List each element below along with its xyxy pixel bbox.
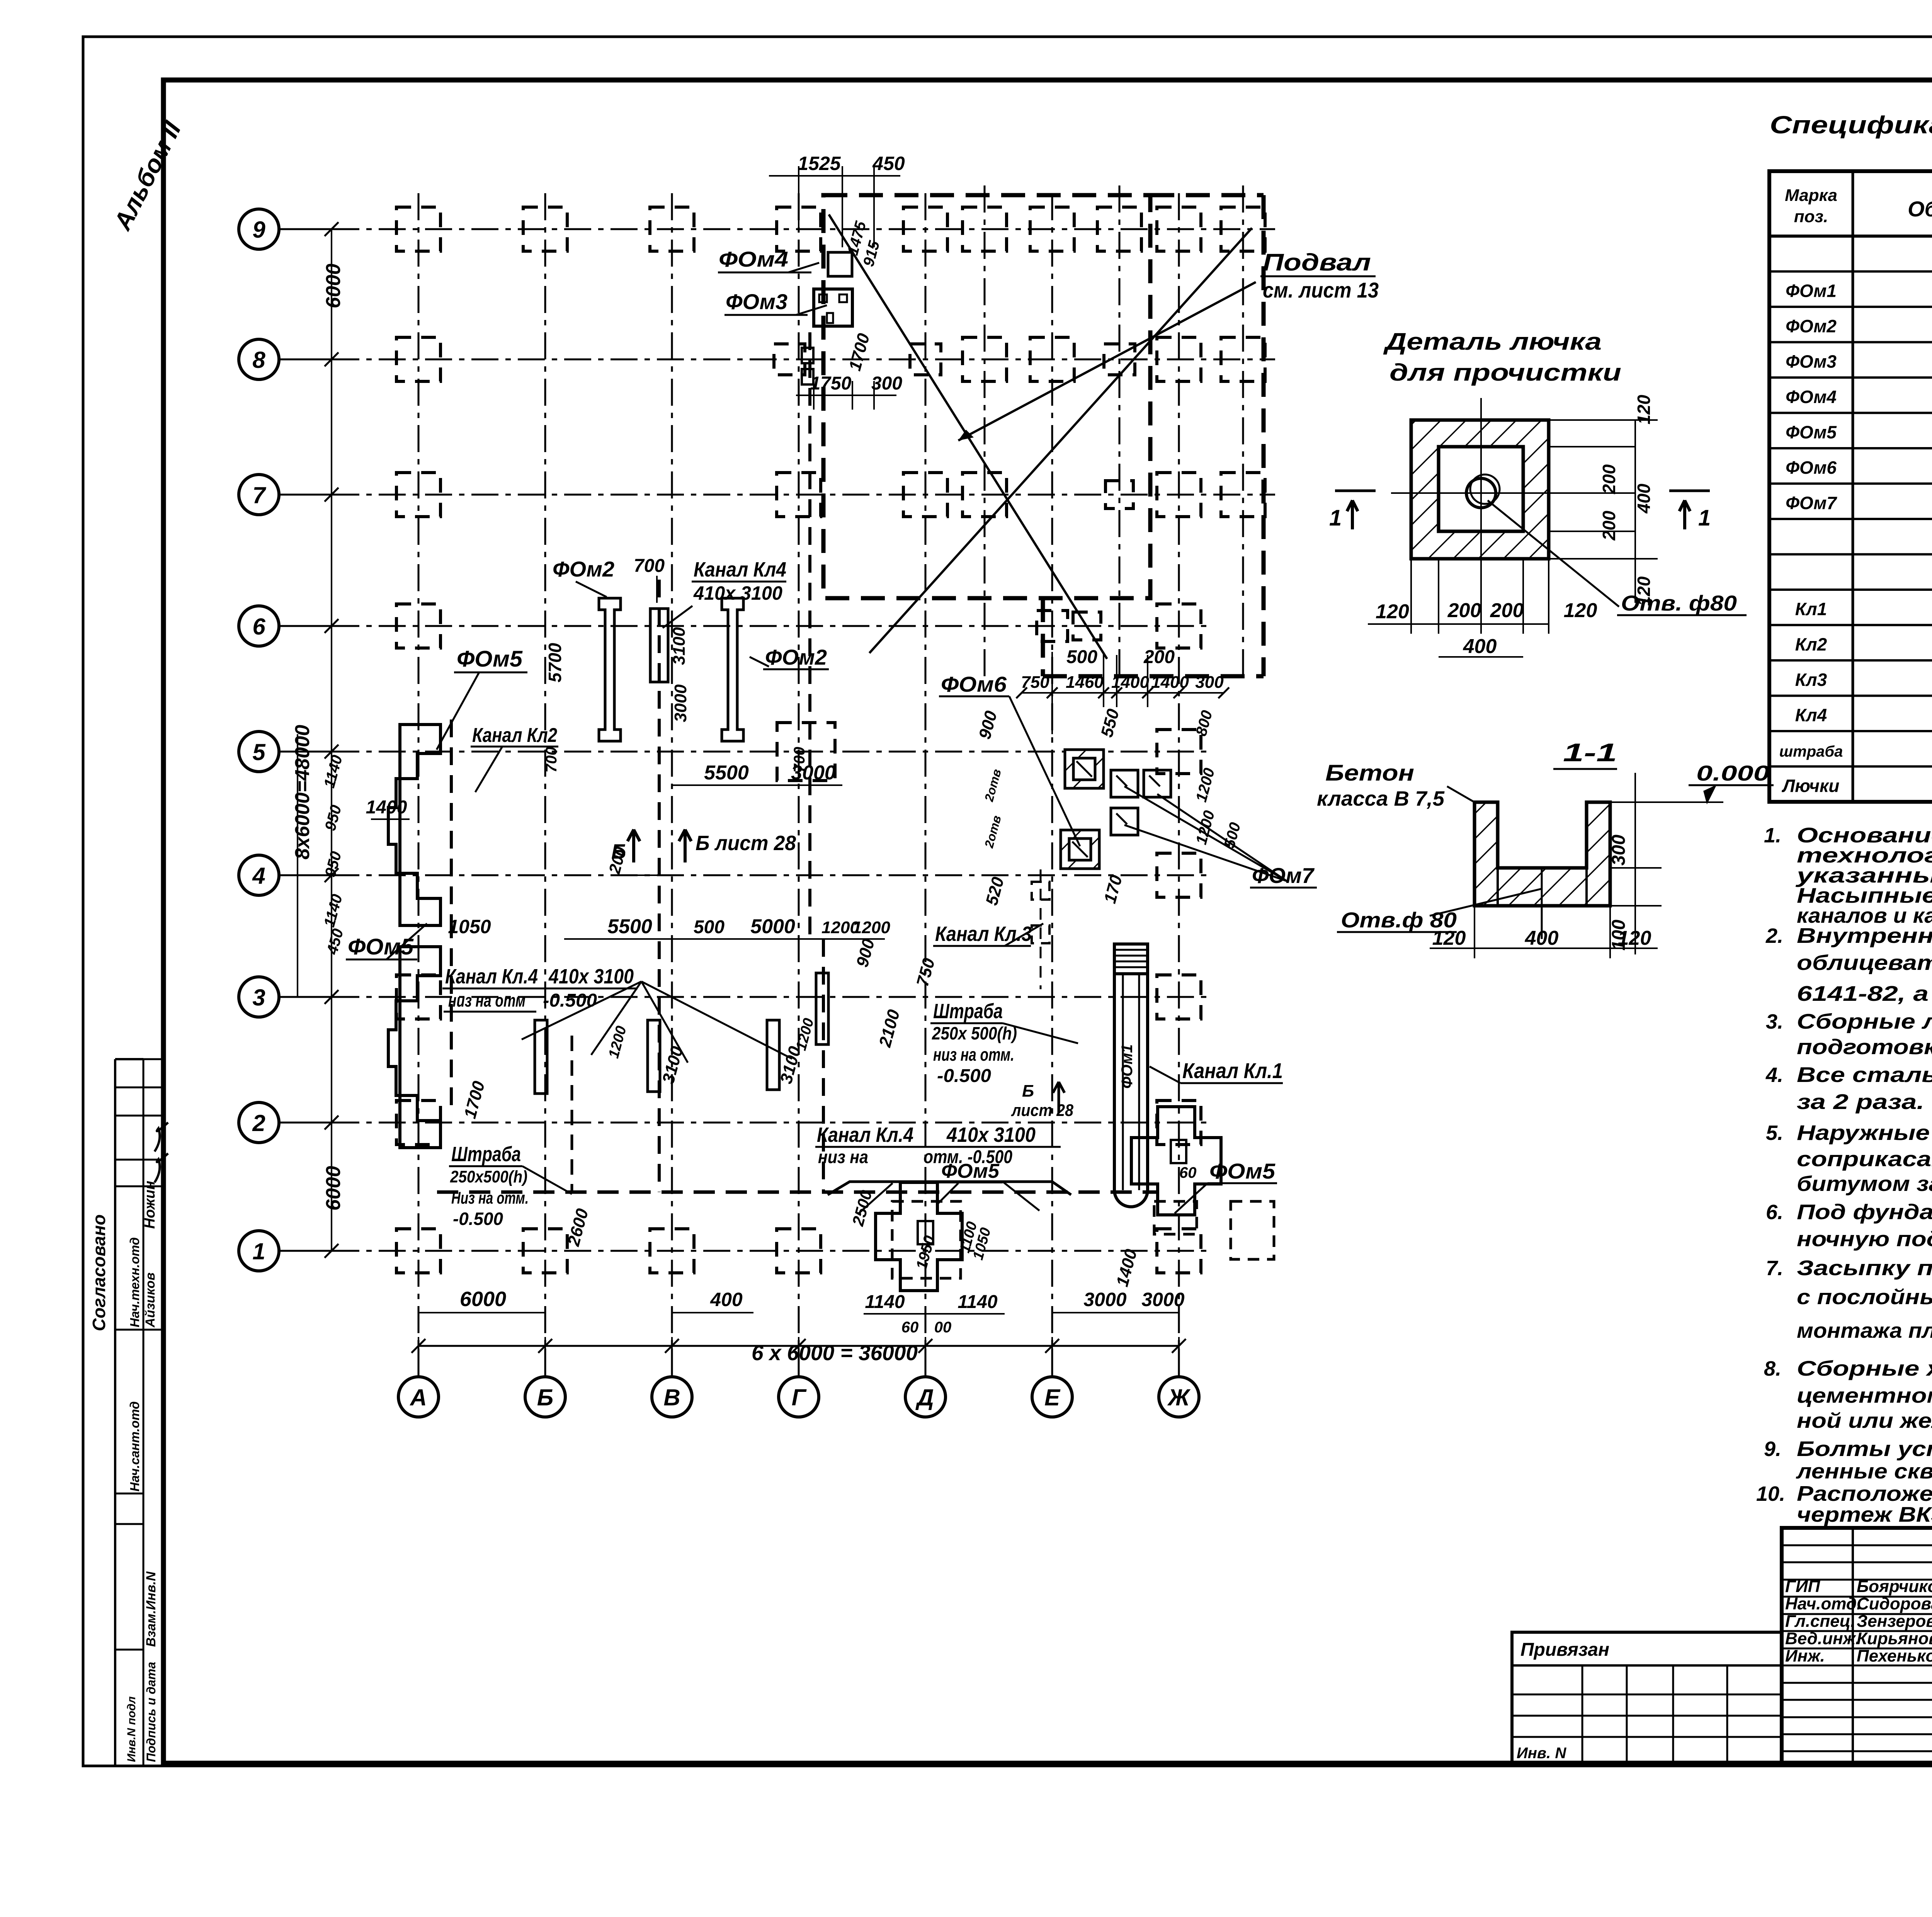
svg-text:ФОм5: ФОм5 <box>1786 422 1837 442</box>
svg-text:Штраба: Штраба <box>933 1000 1003 1023</box>
svg-text:ФОм7: ФОм7 <box>1786 493 1837 513</box>
svg-text:Кирьянова: Кирьянова <box>1857 1629 1932 1648</box>
svg-text:6000: 6000 <box>322 1166 345 1211</box>
svg-text:3000: 3000 <box>1083 1289 1126 1310</box>
svg-text:класса В 7,5: класса В 7,5 <box>1317 787 1445 810</box>
svg-text:А: А <box>409 1385 427 1410</box>
svg-text:450: 450 <box>872 153 905 174</box>
svg-text:Канал Кл4: Канал Кл4 <box>694 558 786 581</box>
svg-text:700: 700 <box>543 747 560 773</box>
svg-text:200: 200 <box>1490 599 1524 622</box>
svg-text:Подпись и дата: Подпись и дата <box>144 1662 158 1762</box>
svg-text:6000: 6000 <box>322 264 345 308</box>
svg-text:300: 300 <box>871 373 902 394</box>
svg-text:5700: 5700 <box>545 643 565 682</box>
svg-text:1: 1 <box>1698 505 1711 531</box>
svg-text:ФОм6: ФОм6 <box>1786 458 1837 478</box>
svg-text:120: 120 <box>1432 927 1466 949</box>
svg-text:1460: 1460 <box>1066 673 1104 692</box>
svg-text:подготовку h=100мм: подготовку h=100мм <box>1797 1035 1932 1059</box>
svg-text:200: 200 <box>1599 464 1619 494</box>
svg-text:см. лист 13: см. лист 13 <box>1263 278 1379 302</box>
svg-text:с послойным уплотнением до γ=: с послойным уплотнением до γ= 1,6 тс/м³ … <box>1797 1285 1932 1309</box>
svg-text:лист 28: лист 28 <box>1011 1101 1073 1120</box>
svg-text:Болты устанавливать на эпоксид: Болты устанавливать на эпоксидном клее в… <box>1797 1437 1932 1461</box>
svg-text:500: 500 <box>1066 647 1097 667</box>
svg-text:60: 60 <box>1179 1164 1197 1181</box>
svg-text:8: 8 <box>252 347 265 373</box>
svg-text:400: 400 <box>1463 635 1497 658</box>
svg-text:0.000: 0.000 <box>1696 761 1770 785</box>
svg-text:Все стальные элементы окрасить: Все стальные элементы окрасить масляной … <box>1797 1063 1932 1087</box>
svg-text:Сборные железобетонные плиты у: Сборные железобетонные плиты укладывать … <box>1797 1356 1932 1380</box>
svg-text:низ на: низ на <box>818 1147 868 1167</box>
svg-text:Боярчиков: Боярчиков <box>1857 1577 1932 1596</box>
svg-text:2.: 2. <box>1765 924 1783 947</box>
svg-text:Пехенько: Пехенько <box>1857 1647 1932 1665</box>
svg-text:Расположение лючков для прочис: Расположение лючков для прочистки на пла… <box>1797 1482 1932 1505</box>
svg-text:6141-82, а полы по ГОСТ 6787-8: 6141-82, а полы по ГОСТ 6787-80* <box>1797 981 1932 1005</box>
svg-text:Штраба: Штраба <box>451 1143 521 1166</box>
svg-text:ФОм2: ФОм2 <box>553 557 614 581</box>
svg-text:700: 700 <box>791 747 808 773</box>
svg-text:1: 1 <box>252 1238 265 1264</box>
svg-text:В: В <box>663 1385 680 1410</box>
svg-text:5000: 5000 <box>750 915 795 938</box>
svg-text:монтажа плит перекрытия.: монтажа плит перекрытия. <box>1797 1318 1932 1342</box>
svg-text:60: 60 <box>901 1319 919 1336</box>
svg-text:ФОм2: ФОм2 <box>765 645 827 669</box>
svg-text:ФОм5: ФОм5 <box>457 646 523 672</box>
svg-text:9: 9 <box>252 217 265 243</box>
svg-text:120: 120 <box>1634 576 1654 606</box>
svg-text:300: 300 <box>1195 673 1224 692</box>
svg-text:ФОм5: ФОм5 <box>941 1160 1000 1182</box>
svg-text:5500: 5500 <box>607 915 652 938</box>
svg-text:Канал Кл2: Канал Кл2 <box>472 724 557 747</box>
svg-text:Инв.N подл: Инв.N подл <box>125 1696 138 1762</box>
svg-text:3.: 3. <box>1766 1010 1783 1033</box>
svg-text:Под фундаменты оборудования вы: Под фундаменты оборудования выполнять ще… <box>1797 1200 1932 1224</box>
svg-text:410х 3100: 410х 3100 <box>693 582 782 604</box>
svg-text:5500: 5500 <box>704 762 749 784</box>
svg-text:Айзиков: Айзиков <box>143 1272 158 1328</box>
svg-text:200: 200 <box>1447 599 1481 622</box>
svg-text:6.: 6. <box>1766 1201 1783 1224</box>
svg-text:Сидорова: Сидорова <box>1857 1594 1932 1613</box>
svg-text:Канал Кл.4: Канал Кл.4 <box>445 965 538 988</box>
svg-text:Вед.инж.: Вед.инж. <box>1785 1629 1860 1648</box>
svg-text:Нач.отд.: Нач.отд. <box>1785 1594 1861 1613</box>
svg-text:4.: 4. <box>1765 1063 1783 1087</box>
svg-text:Д: Д <box>915 1385 934 1410</box>
svg-text:ФОм5: ФОм5 <box>348 934 414 959</box>
svg-text:-0.500: -0.500 <box>937 1066 991 1086</box>
svg-text:1.: 1. <box>1764 824 1781 847</box>
svg-text:5: 5 <box>252 739 266 765</box>
svg-text:1140: 1140 <box>865 1292 905 1312</box>
svg-text:Б: Б <box>537 1385 553 1410</box>
svg-text:низ на отм.: низ на отм. <box>933 1044 1014 1065</box>
svg-text:ФОм4: ФОм4 <box>1786 387 1837 407</box>
svg-text:ФОм4: ФОм4 <box>719 247 788 271</box>
svg-text:3100: 3100 <box>670 627 689 665</box>
svg-text:Обозначение: Обозначение <box>1908 197 1932 221</box>
svg-text:Зензеров: Зензеров <box>1857 1612 1932 1631</box>
svg-text:Марка: Марка <box>1785 186 1837 205</box>
svg-text:120: 120 <box>1564 599 1597 622</box>
svg-text:200: 200 <box>1599 510 1619 541</box>
svg-text:Согласовано: Согласовано <box>89 1214 109 1331</box>
svg-text:1750: 1750 <box>810 373 852 394</box>
svg-text:300: 300 <box>1609 835 1629 866</box>
svg-text:Б лист 28: Б лист 28 <box>696 832 796 855</box>
svg-text:ФОм5: ФОм5 <box>1209 1159 1276 1183</box>
svg-text:Канал Кл.4: Канал Кл.4 <box>817 1123 913 1146</box>
svg-text:ФОм2: ФОм2 <box>1786 316 1837 336</box>
svg-text:6: 6 <box>252 614 265 640</box>
svg-text:ФОм3: ФОм3 <box>726 289 787 314</box>
svg-text:Инв. N: Инв. N <box>1517 1745 1566 1762</box>
svg-text:Кл1: Кл1 <box>1795 599 1827 619</box>
svg-text:цементном растворе марки 100 п: цементном растворе марки 100 по выравнен… <box>1797 1383 1932 1407</box>
svg-text:ФОм3: ФОм3 <box>1786 352 1837 372</box>
svg-text:3000: 3000 <box>1141 1289 1184 1310</box>
svg-text:1-1: 1-1 <box>1563 738 1617 767</box>
svg-text:9.: 9. <box>1764 1437 1781 1461</box>
svg-text:6000: 6000 <box>460 1288 506 1311</box>
svg-text:ФОм1: ФОм1 <box>1119 1044 1136 1089</box>
svg-text:соприкасающиеся с землей, обма: соприкасающиеся с землей, обмазать горяч… <box>1797 1147 1932 1171</box>
svg-text:чертеж ВК3.: чертеж ВК3. <box>1797 1502 1932 1526</box>
svg-text:7: 7 <box>252 482 266 508</box>
svg-text:Наружные поверхности фундамент: Наружные поверхности фундамента ФОм1, ка… <box>1797 1121 1932 1145</box>
svg-text:ФОм6: ФОм6 <box>941 672 1007 696</box>
svg-text:Гл.спец.: Гл.спец. <box>1785 1612 1855 1631</box>
svg-text:1200: 1200 <box>852 918 890 937</box>
svg-text:Нач.сант.отд: Нач.сант.отд <box>128 1401 142 1492</box>
svg-text:Внутренние поверхности стен, н: Внутренние поверхности стен, ниши ФОм1 <box>1797 924 1932 947</box>
svg-text:1525: 1525 <box>798 153 841 174</box>
svg-text:10.: 10. <box>1756 1482 1785 1505</box>
svg-text:Сборные лотки каналов укладыва: Сборные лотки каналов укладывать на песч… <box>1797 1009 1932 1033</box>
svg-text:00: 00 <box>934 1319 952 1336</box>
svg-text:750: 750 <box>1021 673 1049 692</box>
svg-text:400: 400 <box>1634 483 1654 514</box>
svg-text:Е: Е <box>1044 1385 1061 1410</box>
svg-text:250х500(h): 250х500(h) <box>450 1167 527 1186</box>
svg-text:Кл2: Кл2 <box>1795 634 1827 655</box>
svg-text:Ножин: Ножин <box>142 1181 158 1229</box>
svg-text:Ж: Ж <box>1167 1385 1191 1410</box>
svg-text:1400: 1400 <box>1111 673 1149 692</box>
svg-text:500: 500 <box>694 917 724 937</box>
svg-text:400: 400 <box>1525 927 1559 949</box>
svg-text:120: 120 <box>1618 927 1651 949</box>
svg-text:-0.500: -0.500 <box>453 1209 503 1229</box>
svg-text:1: 1 <box>1329 505 1342 531</box>
svg-text:410х 3100: 410х 3100 <box>946 1123 1036 1146</box>
svg-text:120: 120 <box>1634 395 1654 424</box>
svg-text:Г: Г <box>792 1385 807 1410</box>
svg-text:Привязан: Привязан <box>1520 1640 1609 1660</box>
svg-text:2: 2 <box>252 1110 265 1136</box>
svg-text:250х 500(h): 250х 500(h) <box>932 1023 1017 1043</box>
svg-text:ной или железобетонной поверхн: ной или железобетонной поверхности. <box>1797 1408 1932 1432</box>
svg-text:3: 3 <box>252 985 265 1010</box>
svg-text:1400: 1400 <box>1151 673 1189 692</box>
svg-text:за 2 раза.: за 2 раза. <box>1797 1090 1924 1114</box>
svg-text:Бетон: Бетон <box>1325 760 1414 786</box>
svg-text:Засыпку пазух фундаментов грун: Засыпку пазух фундаментов грунтом произв… <box>1797 1256 1932 1280</box>
svg-text:для прочистки: для прочистки <box>1389 359 1621 386</box>
svg-text:низ на отм: низ на отм <box>448 990 526 1010</box>
svg-text:битумом за 2 раза.: битумом за 2 раза. <box>1797 1172 1932 1196</box>
svg-text:4: 4 <box>252 863 265 889</box>
svg-text:Кл3: Кл3 <box>1795 670 1827 690</box>
svg-text:8х6000=48000: 8х6000=48000 <box>291 725 314 860</box>
svg-text:Инж.: Инж. <box>1785 1647 1825 1665</box>
svg-text:штраба: штраба <box>1779 743 1843 760</box>
svg-text:7.: 7. <box>1766 1257 1783 1280</box>
svg-text:ФОм1: ФОм1 <box>1786 281 1837 301</box>
svg-text:3000: 3000 <box>671 684 690 722</box>
svg-text:6 х 6000 = 36000: 6 х 6000 = 36000 <box>752 1340 918 1365</box>
svg-text:облицевать белой керамической: облицевать белой керамической плиткой по… <box>1797 951 1932 975</box>
svg-text:120: 120 <box>1376 600 1409 623</box>
svg-text:Взам.Инв.N: Взам.Инв.N <box>144 1571 158 1647</box>
svg-text:Нач.техн.отд: Нач.техн.отд <box>128 1237 142 1327</box>
svg-text:Деталь лючка: Деталь лючка <box>1383 328 1602 355</box>
svg-text:1140: 1140 <box>957 1292 998 1312</box>
svg-text:поз.: поз. <box>1794 207 1828 226</box>
svg-text:ГИП: ГИП <box>1785 1577 1821 1596</box>
svg-text:Канал Кл.3: Канал Кл.3 <box>935 922 1032 946</box>
svg-text:ленные скважины по получению о: ленные скважины по получению оборудовани… <box>1796 1459 1932 1483</box>
svg-text:1400: 1400 <box>366 797 407 818</box>
svg-text:5.: 5. <box>1766 1121 1783 1145</box>
svg-text:400: 400 <box>710 1289 743 1310</box>
svg-text:700: 700 <box>634 556 665 576</box>
svg-text:8.: 8. <box>1764 1357 1781 1380</box>
svg-text:Канал Кл.1: Канал Кл.1 <box>1182 1058 1283 1083</box>
svg-text:Спецификация к схеме расположе: Спецификация к схеме расположения элемен… <box>1770 111 1932 139</box>
svg-text:1050: 1050 <box>448 916 491 937</box>
svg-text:Подвал: Подвал <box>1263 249 1371 276</box>
svg-text:Б: Б <box>1022 1082 1034 1101</box>
svg-text:Кл4: Кл4 <box>1795 705 1827 725</box>
svg-text:ночную подготовку толщиной 100: ночную подготовку толщиной 100мм. <box>1797 1227 1932 1251</box>
svg-text:Лючки: Лючки <box>1782 776 1840 796</box>
svg-text:410х 3100: 410х 3100 <box>548 965 634 988</box>
